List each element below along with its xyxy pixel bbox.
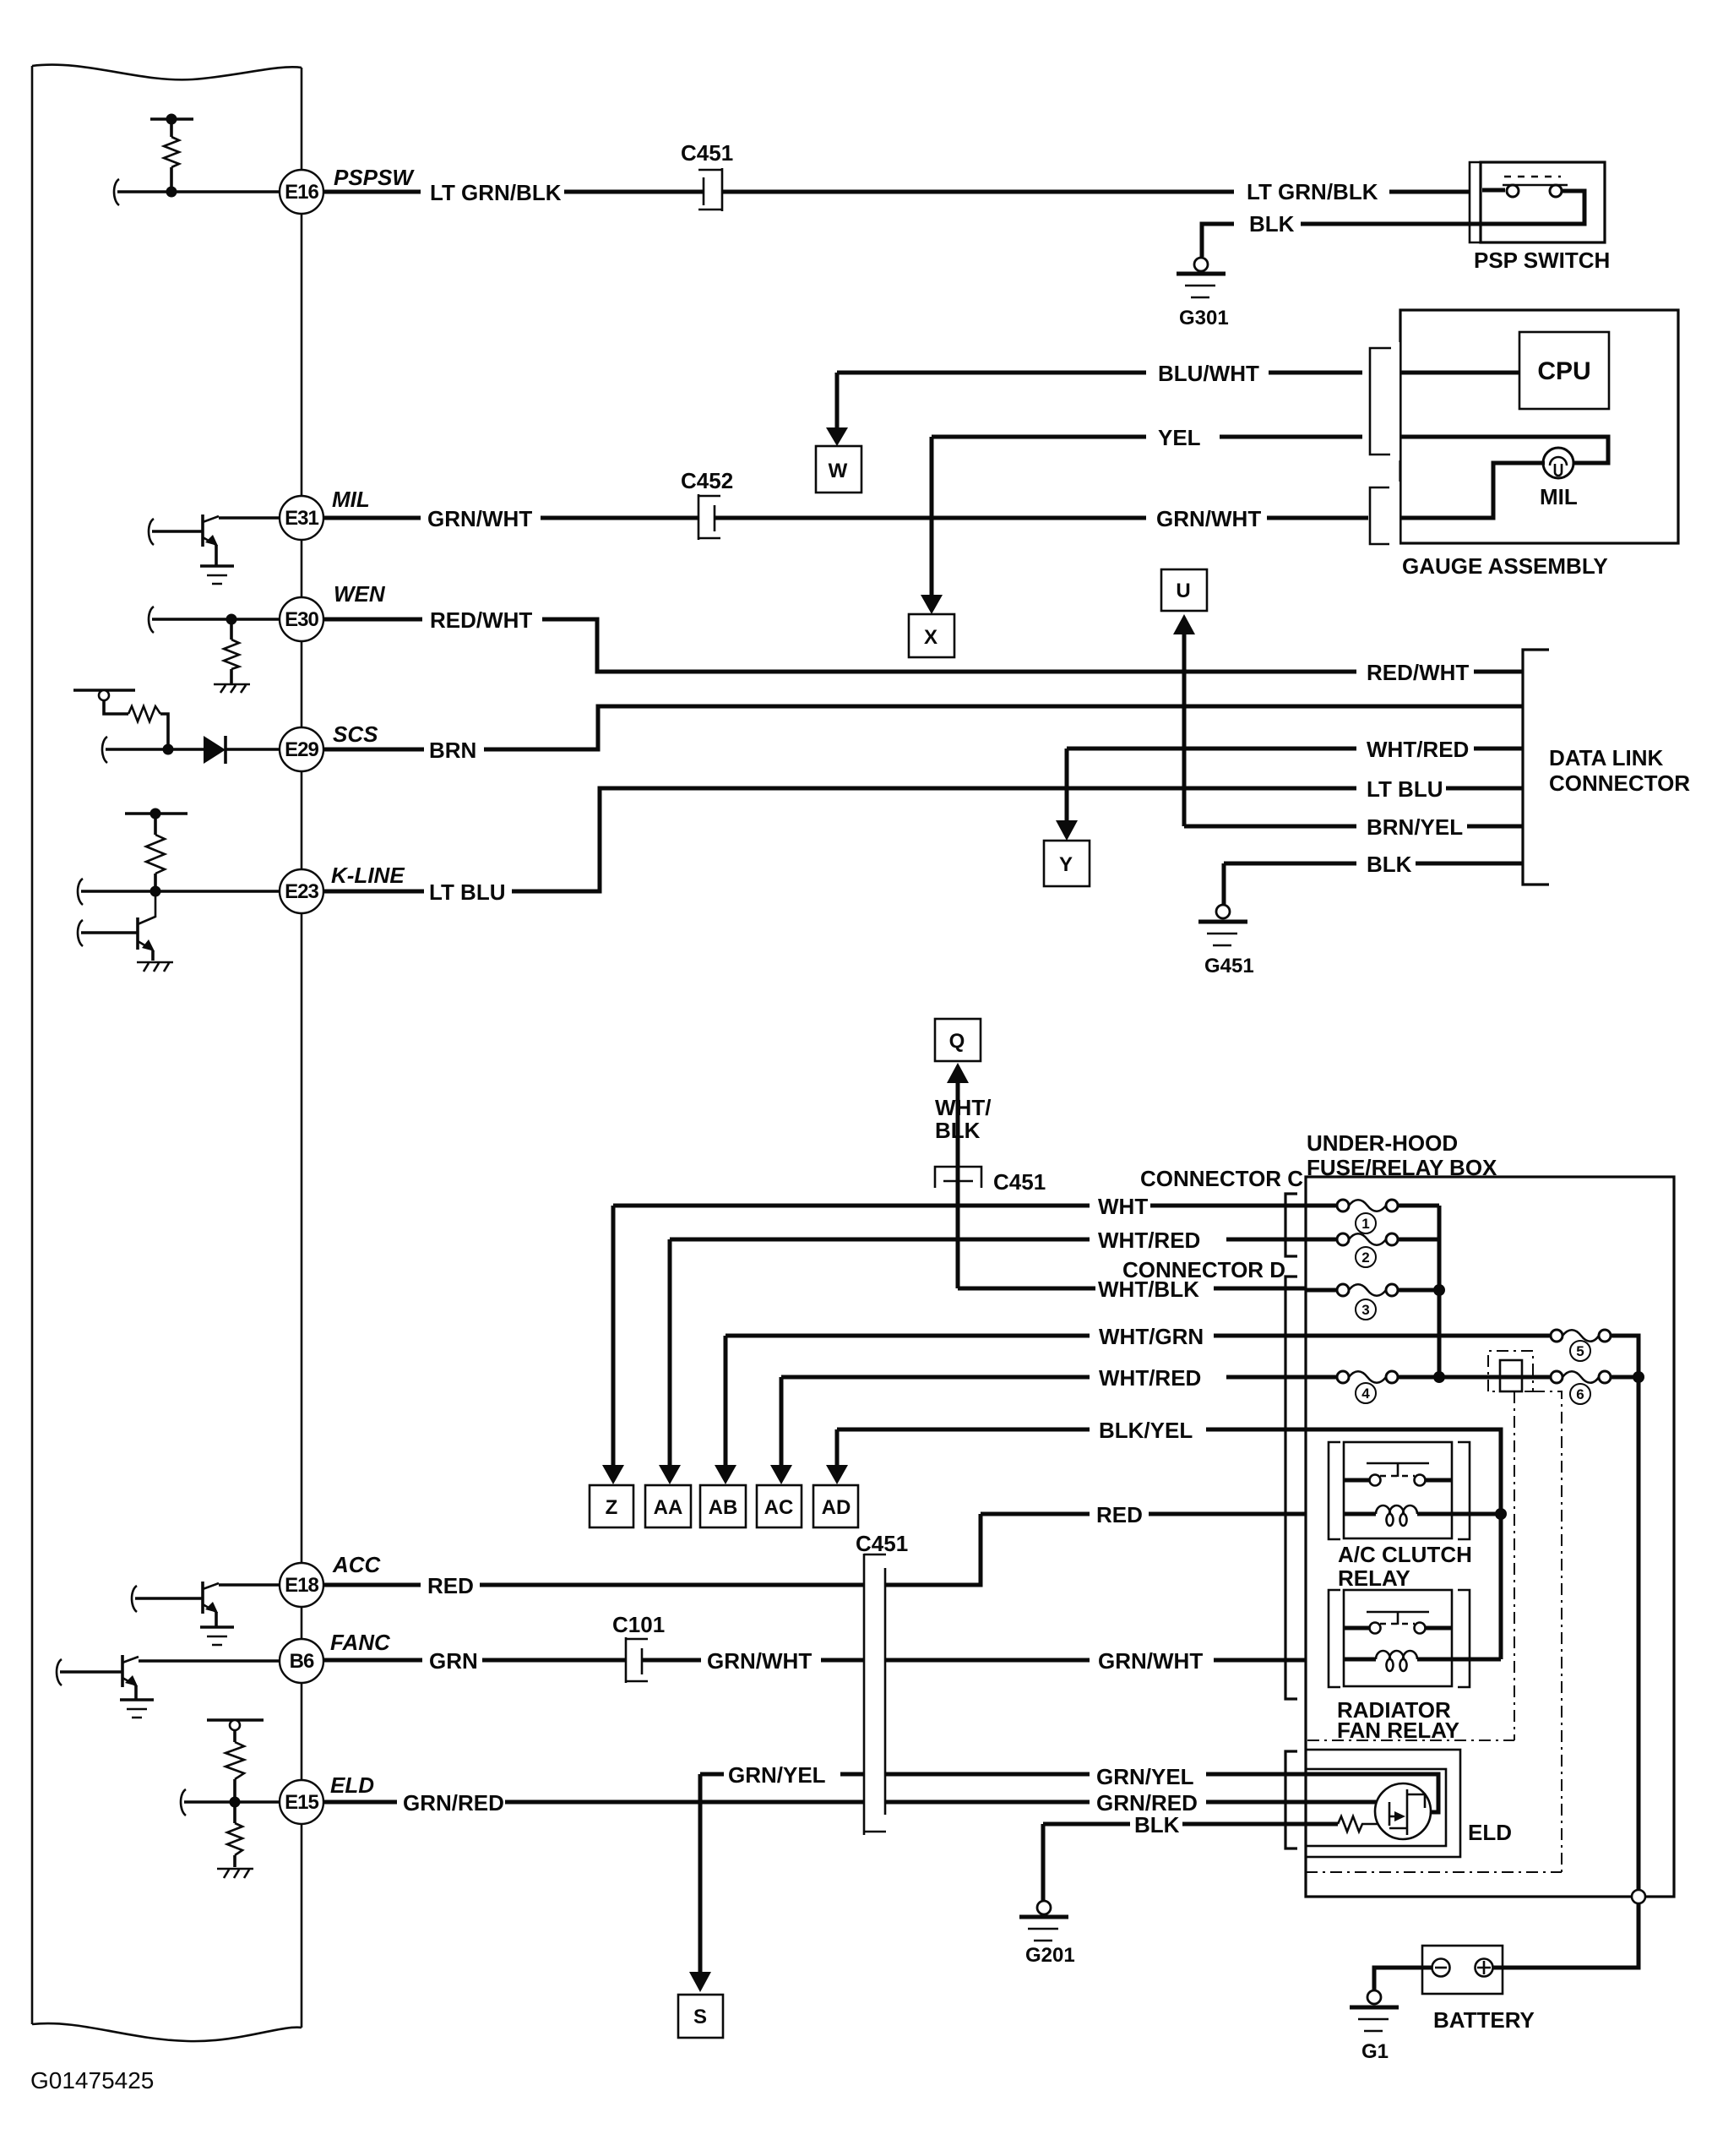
wire BLK/YEL to fuse box: [837, 1418, 1306, 1443]
svg-text:WHT/RED: WHT/RED: [1098, 1228, 1200, 1253]
connector S drop wire and arrow: [689, 1774, 711, 1992]
svg-text:1: 1: [1361, 1216, 1369, 1232]
wire LT BLU from E23 to data link connector: [323, 776, 1523, 905]
svg-text:G301: G301: [1179, 307, 1229, 329]
svg-text:BRN/YEL: BRN/YEL: [1367, 814, 1463, 840]
fuse box bottom terminal: [1493, 1377, 1645, 1968]
battery positive terminal: [1476, 1959, 1493, 1977]
label UNDER-HOOD FUSE/RELAY BOX: [1307, 1130, 1497, 1180]
svg-text:BLK: BLK: [1134, 1812, 1180, 1837]
connector box AB: [700, 1485, 746, 1527]
svg-text:AD: AD: [822, 1496, 851, 1519]
label RADIATOR FAN RELAY: [1337, 1697, 1459, 1743]
svg-text:G451: G451: [1204, 955, 1254, 977]
fuse 4: [1306, 1371, 1439, 1383]
svg-text:DATA LINK: DATA LINK: [1549, 745, 1663, 770]
connector box S: [678, 1995, 723, 2038]
svg-text:ELD: ELD: [1468, 1820, 1512, 1845]
svg-text:4: 4: [1361, 1386, 1370, 1402]
connector X arrow: [921, 437, 943, 614]
connector C451 (Q drop): [935, 1167, 1046, 1195]
svg-text:2: 2: [1361, 1249, 1369, 1266]
svg-text:A/C CLUTCH: A/C CLUTCH: [1338, 1542, 1472, 1567]
wire from fuse bus through relay coil switch to fuse 6: [1439, 1375, 1551, 1380]
pin E30: [280, 597, 323, 641]
svg-text:WHT/RED: WHT/RED: [1099, 1365, 1201, 1391]
indicator MIL bulb: [1540, 448, 1578, 509]
wire GRN/YEL through C451 to ELD: [700, 1762, 1306, 1789]
svg-text:BLK: BLK: [1249, 211, 1295, 237]
svg-text:E18: E18: [285, 1574, 318, 1597]
svg-text:6: 6: [1576, 1386, 1584, 1402]
ground G1: [1350, 1990, 1399, 2063]
svg-text:C101: C101: [612, 1612, 665, 1637]
wire WHT/BLK to fuse box: [958, 1277, 1306, 1302]
svg-text:PSP SWITCH: PSP SWITCH: [1474, 248, 1610, 273]
ELD outer box: [1306, 1750, 1460, 1857]
svg-text:RELAY: RELAY: [1338, 1565, 1410, 1591]
pin E16: [280, 170, 323, 214]
svg-text:BLK: BLK: [1367, 852, 1412, 877]
svg-text:B6: B6: [290, 1650, 314, 1673]
wire PSPSW LT GRN/BLK from E16 to C451: [323, 180, 704, 205]
svg-text:FUSE/RELAY BOX: FUSE/RELAY BOX: [1307, 1155, 1497, 1180]
E23 internal transistor: [78, 891, 155, 961]
connector C451 (E16 row): [681, 140, 733, 211]
wire WHT/GRN inside box to fuse 5: [1306, 1334, 1551, 1338]
pin E29: [280, 727, 323, 771]
svg-text:ACC: ACC: [332, 1552, 382, 1577]
battery negative terminal: [1432, 1959, 1450, 1977]
svg-text:RED: RED: [427, 1573, 474, 1598]
svg-text:WHT/BLK: WHT/BLK: [1098, 1277, 1199, 1302]
svg-text:G01475425: G01475425: [30, 2067, 154, 2093]
svg-text:GRN/WHT: GRN/WHT: [707, 1648, 812, 1674]
connector Q arrow: [947, 1063, 969, 1288]
wire GRN/WHT from C101 to C451: [643, 1648, 864, 1674]
wire GRN/WHT from C452 to gauge assembly: [715, 463, 1545, 531]
svg-text:G201: G201: [1025, 1944, 1075, 1967]
svg-text:BLK: BLK: [935, 1118, 981, 1143]
svg-text:Z: Z: [606, 1496, 618, 1519]
svg-text:PSPSW: PSPSW: [334, 165, 415, 190]
E23 internal wire with break tick: [78, 879, 287, 905]
svg-text:LT BLU: LT BLU: [429, 879, 506, 905]
svg-text:FAN RELAY: FAN RELAY: [1337, 1718, 1459, 1743]
fuse 5: [1551, 1330, 1639, 1377]
svg-text:LT GRN/BLK: LT GRN/BLK: [1247, 179, 1378, 204]
fuse 2: [1306, 1233, 1439, 1245]
svg-text:BATTERY: BATTERY: [1433, 2007, 1535, 2033]
A/C clutch relay right bracket: [1458, 1442, 1470, 1539]
E15 internal wire with break tick: [181, 1789, 287, 1816]
svg-text:LT BLU: LT BLU: [1367, 776, 1443, 802]
CPU box: [1519, 332, 1609, 409]
svg-text:WEN: WEN: [334, 581, 386, 607]
wire GRN/WHT from E31 to C452: [323, 506, 698, 531]
battery box: [1422, 1946, 1503, 1994]
svg-text:FANC: FANC: [330, 1630, 391, 1655]
connector W arrow: [826, 373, 848, 446]
E16 row: internal pull-up resistor: [150, 114, 193, 198]
connector box AA: [645, 1485, 691, 1527]
svg-text:C451: C451: [681, 140, 733, 166]
B6 internal driver transistor: [57, 1655, 287, 1699]
wire BLK from PSP switch to G301: [1202, 211, 1481, 257]
connector AA drop wire and arrow: [659, 1239, 681, 1484]
E30 internal wire with break tick: [149, 607, 287, 633]
connector box W: [816, 446, 861, 493]
A/C clutch relay left bracket: [1329, 1442, 1340, 1539]
svg-text:AB: AB: [709, 1496, 738, 1519]
svg-text:CPU: CPU: [1537, 357, 1590, 385]
svg-text:K-LINE: K-LINE: [331, 863, 405, 888]
junction dot at A/C relay coil: [1495, 1508, 1507, 1520]
pin B6: [280, 1639, 323, 1683]
PSP switch connector bracket: [1470, 162, 1481, 242]
pin E15: [280, 1780, 323, 1824]
svg-text:GRN/RED: GRN/RED: [403, 1790, 504, 1816]
svg-text:E30: E30: [285, 608, 318, 631]
svg-text:5: 5: [1576, 1343, 1584, 1359]
ELD internal wiring: [1306, 1774, 1438, 1832]
diode at E29: [204, 736, 287, 764]
fuse 5 number: [1570, 1341, 1590, 1361]
fuse 6 number: [1570, 1384, 1590, 1404]
svg-text:WHT/GRN: WHT/GRN: [1099, 1324, 1204, 1349]
E15 internal pull-up resistor with test point: [207, 1720, 264, 1808]
E29 internal resistor branch with test point: [73, 690, 174, 755]
svg-text:S: S: [693, 2006, 707, 2028]
A/C clutch relay contact: [1344, 1463, 1452, 1486]
connector C101: [612, 1612, 665, 1683]
label A/C CLUTCH RELAY: [1338, 1542, 1472, 1591]
svg-text:MIL: MIL: [332, 487, 370, 512]
E15 internal pull-down resistor to ground: [217, 1802, 253, 1878]
svg-text:E15: E15: [285, 1791, 318, 1814]
svg-text:C451: C451: [856, 1531, 908, 1556]
connector box Y: [1044, 841, 1090, 886]
ELD sensor transistor: [1375, 1783, 1431, 1839]
svg-text:YEL: YEL: [1158, 425, 1201, 450]
fuse 2 number: [1356, 1247, 1376, 1267]
connector C452: [681, 468, 733, 540]
wire GRN from B6 to C101: [323, 1648, 626, 1674]
wire YEL into gauge assembly: [932, 425, 1608, 463]
radiator fan relay right bracket: [1458, 1590, 1470, 1687]
E29 internal wire with break tick: [102, 737, 205, 763]
svg-text:E31: E31: [285, 507, 318, 530]
pin E18: [280, 1563, 323, 1607]
wire GRN/RED from E15 to C451: [323, 1790, 1090, 1816]
connector box AC: [757, 1485, 802, 1527]
svg-text:AC: AC: [764, 1496, 794, 1519]
svg-text:U: U: [1176, 580, 1190, 602]
fuse bus junction wire: [1433, 1206, 1445, 1383]
svg-text:CONNECTOR C: CONNECTOR C: [1140, 1166, 1303, 1191]
svg-text:CONNECTOR: CONNECTOR: [1549, 770, 1690, 796]
radiator fan relay contact: [1344, 1612, 1452, 1634]
phantom linkage box around actuator: [1488, 1351, 1533, 1391]
wire battery negative to G1: [1374, 1968, 1432, 1990]
PSP switch internal contacts: [1481, 177, 1584, 224]
svg-text:GRN/WHT: GRN/WHT: [1156, 506, 1261, 531]
connector Z drop wire and arrow: [602, 1206, 624, 1484]
fuse 6: [1551, 1371, 1644, 1383]
svg-text:BLU/WHT: BLU/WHT: [1158, 361, 1259, 386]
pin E31: [280, 496, 323, 540]
connector C bracket: [1285, 1194, 1297, 1256]
fuse 4 number: [1356, 1383, 1376, 1403]
svg-text:Q: Q: [949, 1030, 965, 1053]
svg-text:GAUGE ASSEMBLY: GAUGE ASSEMBLY: [1402, 553, 1608, 579]
svg-text:E29: E29: [285, 738, 318, 761]
wire RED from E18 to C451: [323, 1514, 981, 1598]
svg-text:LT GRN/BLK: LT GRN/BLK: [430, 180, 562, 205]
svg-text:SCS: SCS: [333, 721, 378, 747]
svg-text:G1: G1: [1361, 2040, 1389, 2063]
svg-text:C452: C452: [681, 468, 733, 493]
wire BLK/YEL feed inside box to relays: [1306, 1429, 1501, 1659]
E16 internal wire with break tick: [114, 179, 287, 205]
wire WHT/GRN to fuse box: [726, 1324, 1306, 1349]
wire RED from C451 to A/C relay coil: [981, 1502, 1306, 1527]
data link connector bracket: [1523, 650, 1549, 885]
svg-text:GRN: GRN: [429, 1648, 478, 1674]
wire GRN/WHT from C451 to radiator fan relay coil: [885, 1648, 1306, 1674]
fuse 1: [1306, 1200, 1439, 1211]
gauge connector bracket lower: [1362, 482, 1399, 549]
svg-text:GRN/YEL: GRN/YEL: [728, 1762, 826, 1788]
svg-text:UNDER-HOOD: UNDER-HOOD: [1307, 1130, 1458, 1156]
wire BRN from E29 to data link connector: [323, 706, 1523, 763]
svg-text:E23: E23: [285, 880, 318, 903]
wire WHT to fuse box: [613, 1194, 1306, 1219]
PSP switch box: [1481, 162, 1605, 242]
gauge assembly box: [1400, 310, 1678, 543]
ELD inner box: [1306, 1769, 1446, 1846]
wire BLU/WHT into gauge assembly: [837, 361, 1519, 386]
wire GRN/RED label right of C451: [1096, 1790, 1306, 1816]
svg-text:GRN/WHT: GRN/WHT: [427, 506, 532, 531]
svg-text:X: X: [924, 626, 938, 649]
ECM module torn-edge boundary box: [32, 65, 302, 2042]
radiator fan relay left bracket: [1329, 1590, 1340, 1687]
svg-text:WHT/RED: WHT/RED: [1367, 737, 1469, 762]
relay coil actuator switch box: [1500, 1360, 1522, 1391]
wire BRN/YEL to data link connector: [1184, 814, 1523, 840]
radiator fan relay coil: [1344, 1651, 1501, 1671]
label DATA LINK CONNECTOR: [1549, 745, 1690, 796]
phantom linkage lines to relays and ELD: [1306, 1391, 1562, 1872]
ground G301: [1177, 258, 1229, 329]
connector box AD: [813, 1485, 858, 1527]
A/C clutch relay box: [1344, 1442, 1452, 1538]
svg-text:GRN/YEL: GRN/YEL: [1096, 1764, 1194, 1789]
wire WHT/RED to fuse box: [670, 1228, 1306, 1253]
ground at B6 transistor emitter: [120, 1700, 154, 1718]
wire WHT/RED to data link connector: [1067, 737, 1523, 762]
connector Y arrow: [1056, 749, 1078, 841]
svg-text:W: W: [829, 460, 848, 482]
pin E23: [280, 869, 323, 913]
under-hood fuse/relay box: [1306, 1177, 1674, 1897]
svg-text:3: 3: [1361, 1302, 1369, 1318]
svg-text:GRN/WHT: GRN/WHT: [1098, 1648, 1203, 1674]
connector AD drop wire and arrow: [826, 1429, 848, 1484]
wire BLK to ELD and G201: [1043, 1812, 1306, 1901]
connector C451 (bottom): [856, 1531, 908, 1835]
svg-text:RED: RED: [1096, 1502, 1143, 1527]
wire WHT/RED (fuse 4) to fuse box: [781, 1365, 1306, 1391]
svg-text:C451: C451: [993, 1169, 1046, 1195]
svg-text:AA: AA: [654, 1496, 683, 1519]
wire BLK to data link connector: [1224, 852, 1523, 905]
ground at E31 transistor emitter: [200, 566, 234, 584]
connector box Q: [935, 1019, 981, 1061]
A/C clutch relay coil: [1344, 1505, 1501, 1526]
wire LT GRN/BLK from C451 to PSP switch: [722, 179, 1470, 204]
svg-text:WHT: WHT: [1098, 1194, 1148, 1219]
connector box X: [909, 614, 954, 657]
ground G201: [1019, 1901, 1075, 1967]
ground at E18 transistor emitter: [200, 1627, 234, 1645]
ground G451: [1198, 905, 1254, 977]
fuse 1 number: [1356, 1213, 1376, 1233]
E23 internal pull-up resistor: [125, 808, 188, 897]
connector box Z: [590, 1485, 633, 1527]
connector box U: [1161, 569, 1207, 611]
svg-text:BRN: BRN: [429, 738, 476, 763]
fuse 3: [1306, 1284, 1439, 1296]
E18 internal driver transistor: [132, 1582, 287, 1626]
connector D bracket: [1285, 1277, 1297, 1699]
fuse 3 number: [1356, 1299, 1376, 1320]
svg-text:BLK/YEL: BLK/YEL: [1099, 1418, 1193, 1443]
ground at E23 transistor: [137, 962, 173, 972]
E31 internal driver transistor: [149, 514, 287, 565]
connector AB drop wire and arrow: [715, 1336, 736, 1484]
wire RED/WHT from E30 to data link connector: [323, 607, 1523, 685]
svg-text:RED/WHT: RED/WHT: [1367, 660, 1469, 685]
wire label WHT/BLK vertical: [935, 1095, 991, 1143]
svg-text:MIL: MIL: [1540, 484, 1578, 509]
connector U arrow: [1173, 614, 1195, 826]
ELD connector bracket: [1285, 1751, 1297, 1848]
gauge connector bracket upper: [1362, 342, 1399, 460]
radiator fan relay box: [1344, 1590, 1452, 1686]
svg-text:Y: Y: [1059, 853, 1073, 876]
svg-text:ELD: ELD: [330, 1772, 374, 1798]
E30 internal pull-down resistor to ground: [214, 619, 250, 693]
svg-text:WHT/: WHT/: [935, 1095, 991, 1120]
connector AC drop wire and arrow: [770, 1377, 792, 1484]
svg-text:RED/WHT: RED/WHT: [430, 607, 532, 633]
svg-text:E16: E16: [285, 181, 318, 204]
